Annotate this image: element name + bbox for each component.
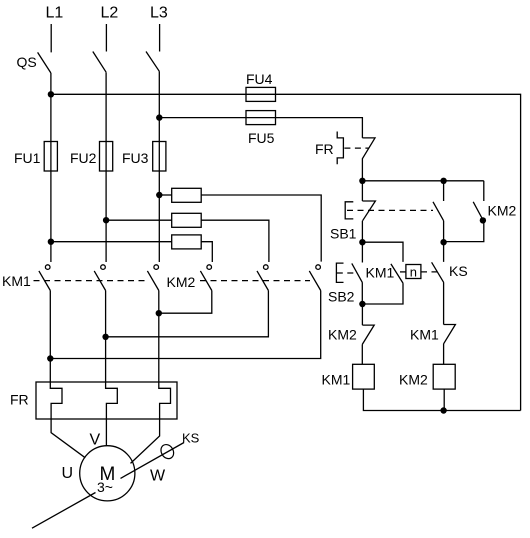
svg-text:FU5: FU5 [248, 130, 275, 146]
svg-text:KM2: KM2 [328, 327, 357, 343]
svg-text:KM2: KM2 [488, 203, 517, 219]
svg-text:FU3: FU3 [122, 150, 149, 166]
svg-text:L1: L1 [46, 5, 64, 22]
svg-text:W: W [150, 468, 166, 485]
svg-text:QS: QS [17, 54, 37, 70]
svg-text:L3: L3 [150, 5, 168, 22]
svg-text:KM2: KM2 [167, 274, 196, 290]
svg-text:KM1: KM1 [366, 265, 395, 281]
svg-text:V: V [90, 432, 101, 449]
svg-text:KM2: KM2 [399, 372, 428, 388]
svg-text:SB2: SB2 [328, 289, 355, 305]
svg-text:FR: FR [315, 141, 334, 157]
svg-text:n: n [410, 265, 417, 280]
svg-text:SB1: SB1 [330, 226, 357, 242]
svg-text:3~: 3~ [97, 479, 113, 495]
svg-text:KS: KS [182, 431, 200, 446]
svg-text:FR: FR [10, 392, 29, 408]
svg-text:KM1: KM1 [2, 273, 31, 289]
svg-text:KM1: KM1 [322, 372, 351, 388]
svg-text:FU2: FU2 [70, 150, 97, 166]
svg-text:KS: KS [449, 263, 468, 279]
svg-text:KM1: KM1 [410, 327, 439, 343]
svg-text:U: U [62, 465, 74, 482]
svg-text:FU1: FU1 [14, 150, 41, 166]
svg-text:L2: L2 [101, 5, 119, 22]
svg-text:FU4: FU4 [246, 71, 273, 87]
